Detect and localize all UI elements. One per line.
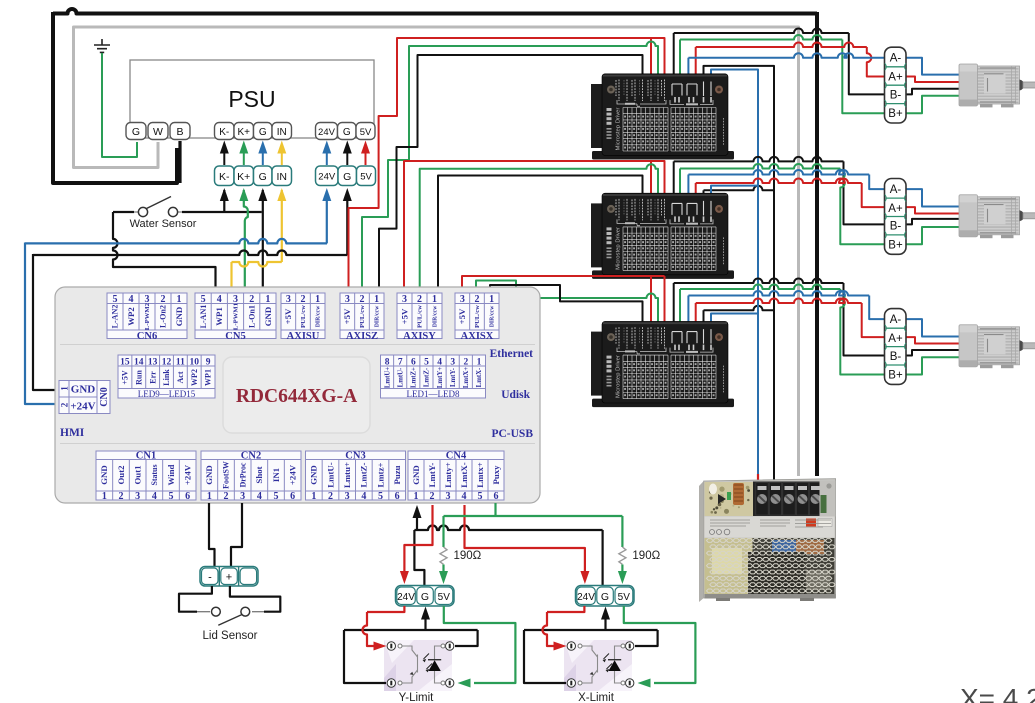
optocoupler X-Limit	[564, 640, 634, 691]
svg-text:14: 14	[134, 358, 144, 368]
svg-text:24V: 24V	[318, 172, 336, 183]
svg-text:2: 2	[119, 491, 124, 502]
svg-text:Lmtu+: Lmtu+	[342, 462, 352, 488]
terminal block G	[338, 166, 357, 186]
LED1-LED8 box	[381, 355, 486, 398]
terminal block K+	[234, 166, 254, 186]
svg-text:AXISU: AXISU	[287, 331, 320, 342]
svg-text:PSU: PSU	[228, 86, 275, 112]
wires Y-limit loop	[424, 612, 426, 621]
svg-text:LmtU+: LmtU+	[384, 367, 391, 388]
wire HMI GND black	[33, 251, 347, 256]
connector CN2	[201, 451, 301, 500]
svg-text:+24V: +24V	[288, 464, 298, 485]
svg-text:WP2: WP2	[126, 307, 136, 326]
svg-text:PUL/cw: PUL/cw	[474, 305, 481, 328]
arrow into PSU 24V	[326, 152, 328, 165]
LED9-LED15 box	[118, 355, 215, 398]
svg-text:LED1—LED8: LED1—LED8	[407, 389, 460, 399]
svg-text:GND: GND	[411, 465, 421, 485]
svg-text:5: 5	[378, 491, 383, 502]
svg-text:LmtY-: LmtY-	[450, 367, 457, 387]
svg-text:AXISZ: AXISZ	[346, 331, 378, 342]
svg-text:2: 2	[417, 294, 422, 305]
stepper motor Y	[959, 195, 1035, 238]
svg-text:LmtX-: LmtX-	[476, 367, 483, 387]
terminal stack motor X	[885, 309, 907, 385]
svg-text:G: G	[343, 127, 351, 138]
svg-text:4: 4	[361, 491, 366, 502]
svg-text:2: 2	[224, 491, 229, 502]
svg-text:GND: GND	[71, 384, 96, 396]
svg-text:LmtY+: LmtY+	[437, 367, 444, 388]
svg-text:2: 2	[360, 294, 365, 305]
svg-text:1: 1	[207, 491, 212, 502]
wires X-limit loop	[604, 612, 606, 621]
svg-text:G: G	[259, 127, 267, 138]
PSU terminal K-	[215, 123, 235, 140]
svg-text:3: 3	[345, 294, 350, 305]
svg-text:X-Limit: X-Limit	[578, 692, 615, 703]
terminal block G	[254, 166, 273, 186]
svg-text:GND: GND	[263, 307, 273, 327]
svg-text:Udisk: Udisk	[501, 389, 530, 401]
svg-text:LmtZ-: LmtZ-	[424, 367, 431, 387]
resistor 190ohm Y	[440, 547, 482, 564]
svg-text:LmtZ-: LmtZ-	[359, 462, 369, 487]
svg-text:FootSW: FootSW	[222, 461, 231, 489]
svg-text:1: 1	[311, 491, 316, 502]
svg-text:2: 2	[249, 294, 254, 305]
svg-text:Lmtz+: Lmtz+	[375, 462, 385, 487]
wire CN4 GND to limit G terminals	[416, 508, 418, 530]
svg-text:W: W	[153, 126, 163, 138]
svg-text:IN1: IN1	[271, 468, 281, 482]
svg-text:Water Sensor: Water Sensor	[130, 218, 197, 230]
wire water sensor to CN5 WP1	[113, 212, 216, 293]
arrow into PSU K+	[243, 152, 245, 165]
svg-text:DIR/ccw: DIR/ccw	[490, 305, 496, 327]
svg-text:IN: IN	[277, 127, 287, 138]
svg-text:4: 4	[462, 491, 467, 502]
svg-text:3: 3	[460, 294, 465, 305]
terminal block 5V	[357, 166, 376, 186]
svg-text:L-PWM2: L-PWM2	[144, 302, 151, 330]
svg-text:WP2: WP2	[190, 369, 199, 386]
wire CN4 LmtX- to X 24V	[465, 505, 585, 571]
svg-text:L-AN1: L-AN1	[199, 305, 208, 329]
svg-text:11: 11	[176, 358, 185, 368]
connector CN1	[96, 451, 196, 500]
svg-text:K-: K-	[219, 171, 230, 183]
svg-text:3: 3	[135, 491, 140, 502]
svg-text:Lid Sensor: Lid Sensor	[203, 630, 258, 642]
svg-text:1: 1	[477, 358, 482, 368]
svg-text:5: 5	[113, 294, 118, 305]
svg-text:+5V: +5V	[399, 308, 409, 324]
svg-text:DrProc: DrProc	[238, 462, 247, 487]
svg-text:Y-Limit: Y-Limit	[399, 692, 435, 703]
switch Water Sensor	[113, 211, 134, 213]
svg-text:Lmtx+: Lmtx+	[475, 462, 485, 488]
svg-text:6: 6	[411, 358, 416, 368]
svg-text:LmtU-: LmtU-	[397, 367, 404, 387]
svg-text:CN5: CN5	[225, 331, 245, 342]
svg-text:Link: Link	[162, 369, 171, 386]
svg-text:Act: Act	[176, 371, 185, 383]
svg-text:6: 6	[395, 491, 400, 502]
svg-text:4: 4	[217, 294, 222, 305]
svg-text:2: 2	[328, 491, 333, 502]
svg-text:10: 10	[189, 358, 199, 368]
svg-text:PUL/cw: PUL/cw	[359, 305, 366, 328]
svg-text:1: 1	[414, 491, 419, 502]
svg-text:K+: K+	[237, 127, 250, 138]
wire AXISY +5V to driver2	[404, 161, 665, 293]
svg-text:PUL/cw: PUL/cw	[300, 305, 307, 328]
svg-text:2: 2	[59, 402, 69, 407]
wire HMI +24V blue	[25, 239, 327, 244]
svg-text:4: 4	[437, 358, 442, 368]
wire black mains line (B)	[53, 9, 817, 14]
svg-text:GND: GND	[309, 465, 319, 485]
wire CN2 GND to lid sensor -	[209, 503, 215, 567]
PSU terminal 5V	[356, 123, 375, 140]
svg-text:6: 6	[185, 491, 190, 502]
svg-text:2: 2	[301, 294, 306, 305]
connector CN6	[107, 293, 187, 339]
svg-text:1: 1	[102, 491, 107, 502]
connector CN4	[408, 451, 504, 500]
svg-text:2: 2	[161, 294, 166, 305]
connector AXISX	[455, 293, 499, 339]
svg-text:3: 3	[240, 491, 245, 502]
svg-text:2: 2	[430, 491, 435, 502]
PSU terminal 24V	[316, 123, 338, 140]
svg-text:3: 3	[446, 491, 451, 502]
svg-text:6: 6	[494, 491, 499, 502]
svg-text:LED9—LED15: LED9—LED15	[138, 389, 196, 399]
wire AXISX +5V to driver3	[462, 276, 665, 321]
svg-text:DIR/ccw: DIR/ccw	[316, 305, 322, 327]
svg-text:Ethernet: Ethernet	[490, 348, 534, 360]
terminal block Y-limit 24V G 5V	[396, 586, 455, 607]
svg-text:GND: GND	[174, 307, 184, 327]
svg-text:3: 3	[450, 358, 455, 368]
svg-text:1: 1	[177, 294, 182, 305]
PSU terminal IN	[272, 123, 292, 140]
svg-text:LmtX-: LmtX-	[459, 462, 469, 487]
wires driver2 to motor Y	[673, 161, 675, 193]
svg-text:24V: 24V	[318, 127, 336, 138]
svg-text:Lmty+: Lmty+	[443, 462, 453, 488]
svg-text:4: 4	[152, 491, 157, 502]
wire CN4 LmtY- to Y 24V	[404, 505, 432, 571]
ground symbol	[94, 39, 110, 52]
svg-text:PC-USB: PC-USB	[491, 428, 533, 440]
svg-text:4: 4	[129, 294, 134, 305]
svg-text:Puzu: Puzu	[392, 465, 402, 484]
svg-text:L-On2: L-On2	[159, 305, 168, 328]
connector CN5	[195, 293, 276, 339]
connector CN0 HMI	[59, 381, 110, 414]
wire GND bus to power brick	[704, 66, 775, 496]
PSU terminal K+	[234, 123, 254, 140]
svg-text:L-PWM1: L-PWM1	[233, 303, 240, 330]
svg-text:WP1: WP1	[204, 369, 213, 386]
svg-text:Run: Run	[134, 370, 143, 385]
connector AXISY	[397, 293, 442, 339]
switch Lid Sensor	[179, 586, 212, 612]
PSU terminal W	[148, 123, 168, 140]
svg-text:X= 4 25: X= 4 25	[960, 683, 1035, 703]
svg-text:L-AN2: L-AN2	[111, 305, 120, 329]
arrow into PSU G	[346, 152, 348, 165]
wire AXISZ DIR to driver1	[379, 55, 643, 293]
wire AXISX +5V overlay on driver2 base	[560, 276, 665, 280]
svg-text:5: 5	[274, 491, 279, 502]
svg-text:Out2: Out2	[116, 465, 126, 485]
wire gray neutral line (W)	[74, 27, 799, 476]
svg-text:7: 7	[398, 358, 403, 368]
microstep driver 1 (U axis)	[591, 74, 734, 160]
power supply brick photo	[699, 479, 836, 602]
svg-text:1: 1	[265, 294, 270, 305]
svg-text:Puxy: Puxy	[491, 465, 501, 485]
PSU terminal B	[170, 123, 190, 140]
svg-text:2: 2	[475, 294, 480, 305]
svg-text:15: 15	[120, 358, 130, 368]
svg-text:Out1: Out1	[133, 465, 143, 484]
svg-text:5: 5	[478, 491, 483, 502]
terminal block lid - +	[200, 567, 258, 587]
svg-text:HMI: HMI	[60, 427, 85, 439]
svg-text:1: 1	[374, 294, 379, 305]
svg-text:1: 1	[315, 294, 320, 305]
wire green earth (G)	[102, 53, 137, 157]
optocoupler Y-Limit	[384, 640, 454, 691]
svg-text:+5V: +5V	[283, 308, 293, 324]
svg-text:2: 2	[463, 358, 468, 368]
controller board RDC644XG-A outline	[55, 287, 540, 503]
svg-text:CN1: CN1	[136, 451, 156, 462]
svg-text:Wind: Wind	[166, 464, 176, 485]
svg-text:3: 3	[402, 294, 407, 305]
connector CN3	[306, 451, 406, 500]
svg-text:9: 9	[206, 358, 211, 368]
PSU box	[130, 60, 374, 138]
stepper motor X	[959, 325, 1035, 368]
wire AXISZ +5V to driver1	[349, 38, 665, 293]
svg-text:IN: IN	[277, 171, 288, 183]
terminal block 24V	[316, 166, 339, 186]
svg-text:-: -	[208, 572, 212, 584]
svg-text:K-: K-	[219, 127, 229, 138]
svg-text:L-On1: L-On1	[247, 305, 256, 328]
arrow into PSU K-	[223, 152, 225, 165]
svg-text:CN3: CN3	[345, 451, 365, 462]
wire AXISY DIR to driver2	[438, 176, 643, 294]
wire K- to water sensor	[223, 190, 225, 211]
PSU terminal G	[254, 123, 273, 140]
svg-text:8: 8	[385, 358, 390, 368]
wire CN4 Puxy green to 5V resistors	[494, 503, 496, 516]
stepper motor U	[959, 64, 1035, 107]
svg-text:Shot: Shot	[254, 466, 264, 483]
svg-text:CN6: CN6	[137, 331, 157, 342]
arrow into PSU IN	[281, 152, 283, 165]
svg-text:LmtZ+: LmtZ+	[411, 367, 418, 388]
terminal stack motor U	[885, 47, 907, 123]
svg-text:3: 3	[286, 294, 291, 305]
svg-text:RDC644XG-A: RDC644XG-A	[236, 386, 357, 407]
svg-text:LmtU-: LmtU-	[325, 462, 335, 487]
resistor 190ohm X	[619, 547, 661, 564]
svg-text:AXISX: AXISX	[461, 331, 494, 342]
wire IN to CN5 L-PWM1	[281, 190, 283, 262]
svg-text:Status: Status	[150, 464, 159, 485]
svg-text:LmtX+: LmtX+	[463, 367, 470, 388]
svg-text:B: B	[176, 126, 183, 138]
svg-text:CN4: CN4	[446, 451, 467, 462]
wire AXISX PUL to driver3	[476, 281, 658, 322]
svg-text:+24V: +24V	[183, 464, 193, 485]
center panel	[223, 357, 370, 433]
svg-text:3: 3	[345, 491, 350, 502]
svg-text:5: 5	[424, 358, 429, 368]
svg-text:LmtY-: LmtY-	[427, 463, 437, 488]
svg-text:+5V: +5V	[342, 308, 352, 324]
arrow into PSU G	[262, 152, 264, 165]
svg-text:G: G	[343, 171, 351, 183]
svg-text:DIR/ccw: DIR/ccw	[432, 305, 438, 327]
svg-text:5: 5	[201, 294, 206, 305]
wire K+ to CN5 L-On1	[244, 190, 248, 293]
svg-text:4: 4	[257, 491, 262, 502]
svg-text:GND: GND	[204, 465, 214, 485]
svg-text:PUL/cw: PUL/cw	[417, 305, 424, 328]
PSU terminal G	[126, 123, 146, 140]
svg-text:GND: GND	[99, 465, 109, 485]
svg-text:13: 13	[148, 358, 158, 368]
wire AXISX DIR to driver3	[490, 285, 643, 321]
wire CN2 DrProc to lid sensor +	[231, 503, 242, 567]
svg-text:DIR/ccw: DIR/ccw	[375, 305, 381, 327]
svg-text:1: 1	[432, 294, 437, 305]
svg-text:K+: K+	[237, 171, 250, 183]
svg-text:5V: 5V	[360, 127, 372, 138]
microstep driver 2 (Y axis)	[591, 193, 734, 279]
svg-text:1: 1	[59, 386, 69, 391]
svg-text:1: 1	[489, 294, 494, 305]
terminal block IN	[272, 166, 292, 186]
svg-text:CN0: CN0	[99, 387, 110, 406]
terminal block K-	[215, 166, 235, 186]
connector AXISU	[281, 293, 325, 339]
svg-text:CN2: CN2	[241, 451, 261, 462]
connector AXISZ	[340, 293, 384, 339]
svg-text:+24V: +24V	[70, 401, 95, 413]
wire G net to CN5 GND	[262, 190, 264, 287]
svg-text:G: G	[259, 171, 267, 183]
wire AXISY PUL to driver2	[420, 164, 658, 293]
svg-text:6: 6	[290, 491, 295, 502]
wires driver1 to motor U	[673, 33, 675, 74]
svg-text:5: 5	[169, 491, 174, 502]
svg-text:+5V: +5V	[457, 308, 467, 324]
svg-text:WP1: WP1	[214, 307, 224, 326]
svg-text:+: +	[226, 572, 232, 584]
wires driver3 to motor X	[673, 283, 675, 321]
terminal block X-limit 24V G 5V	[576, 586, 635, 607]
microstep driver 3 (X axis)	[591, 321, 734, 407]
svg-text:5V: 5V	[360, 172, 372, 183]
PSU terminal G	[338, 123, 357, 140]
svg-text:12: 12	[162, 358, 172, 368]
arrow into PSU 5V	[365, 152, 367, 165]
svg-text:+5V: +5V	[121, 370, 130, 385]
svg-text:Err: Err	[148, 371, 157, 384]
wire VCC bus to power brick	[711, 70, 758, 475]
svg-text:AXISY: AXISY	[403, 331, 436, 342]
terminal stack motor Y	[885, 179, 907, 255]
svg-text:G: G	[132, 126, 140, 138]
wire AXISZ PUL to driver1	[362, 42, 658, 294]
